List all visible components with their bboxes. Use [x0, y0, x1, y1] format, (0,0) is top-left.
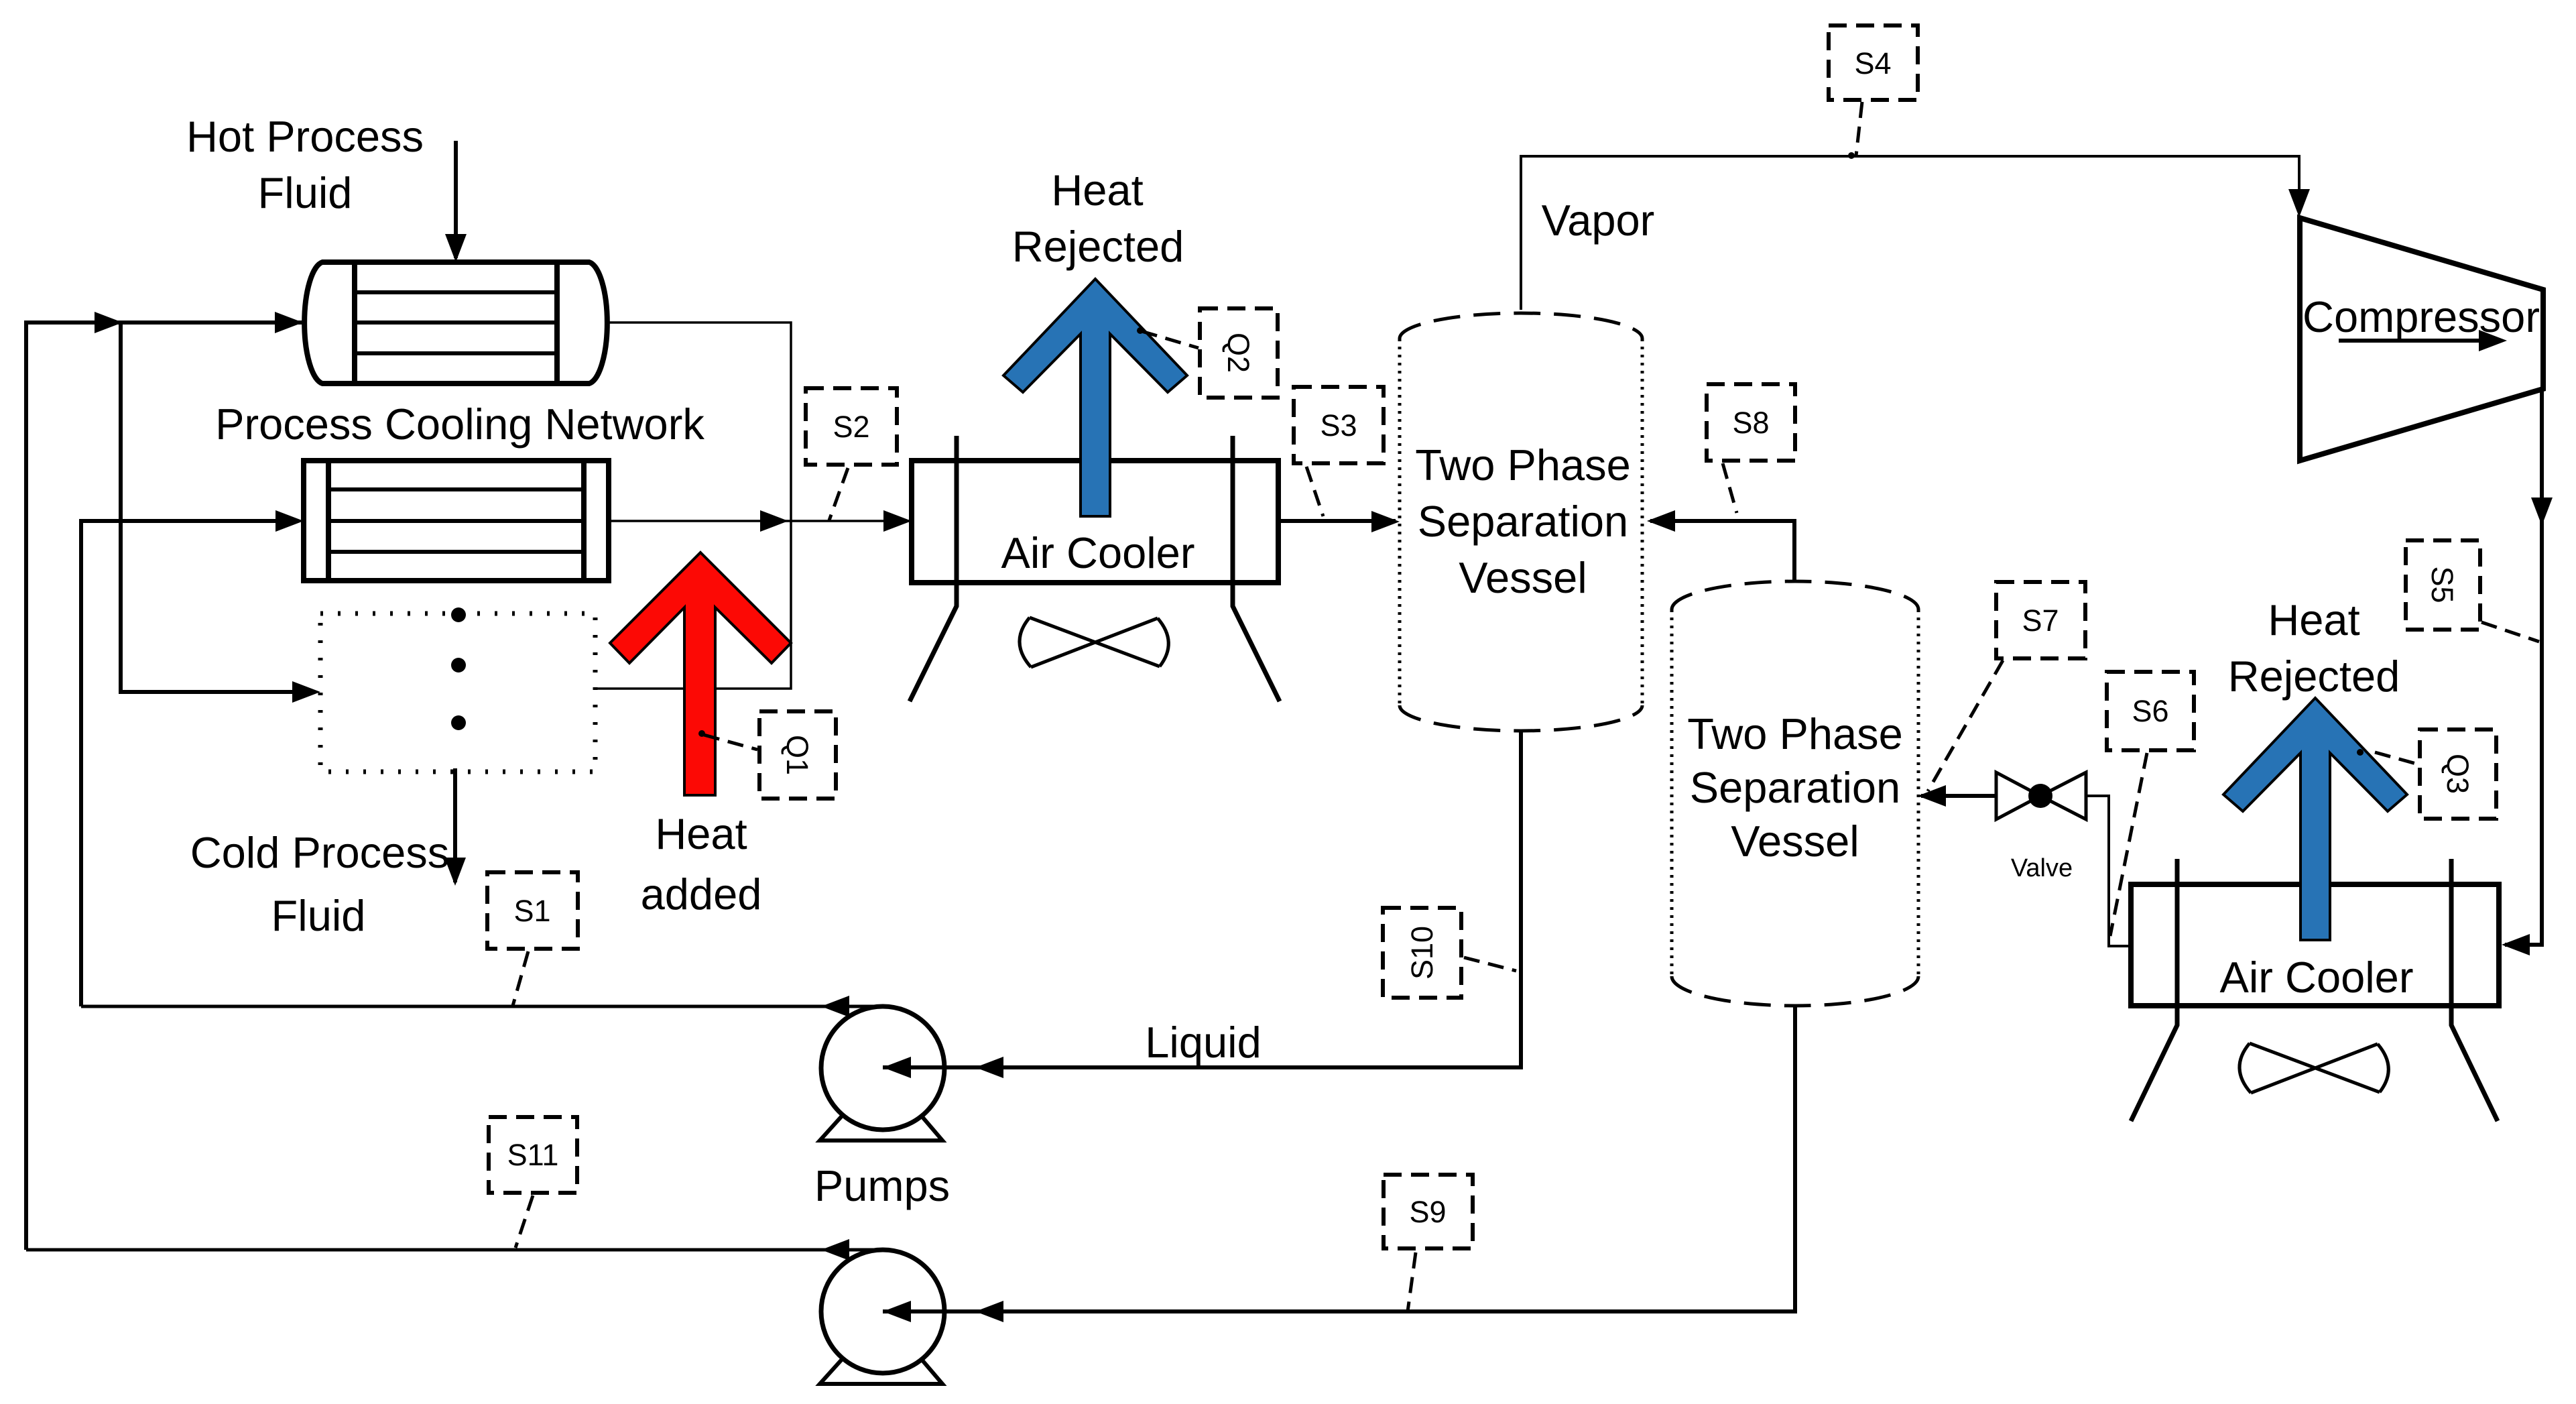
svg-text:Two Phase: Two Phase — [1415, 441, 1631, 489]
svg-text:Vessel: Vessel — [1459, 553, 1587, 602]
svg-text:Vapor: Vapor — [1542, 196, 1655, 245]
svg-text:Air Cooler: Air Cooler — [1001, 528, 1195, 577]
svg-text:added: added — [641, 870, 762, 919]
svg-text:S10: S10 — [1405, 926, 1439, 980]
svg-text:S2: S2 — [833, 410, 869, 444]
svg-text:Fluid: Fluid — [258, 168, 353, 217]
svg-text:Air Cooler: Air Cooler — [2220, 953, 2414, 1002]
svg-text:Valve: Valve — [2011, 854, 2073, 882]
svg-text:Hot Process: Hot Process — [186, 112, 424, 161]
svg-text:S9: S9 — [1409, 1195, 1446, 1229]
svg-text:Heat: Heat — [2268, 595, 2359, 644]
svg-text:Process Cooling Network: Process Cooling Network — [215, 400, 704, 449]
svg-text:Vessel: Vessel — [1731, 817, 1859, 866]
svg-text:Q2: Q2 — [1221, 333, 1255, 373]
svg-text:S6: S6 — [2132, 694, 2168, 728]
svg-text:S5: S5 — [2425, 566, 2459, 603]
svg-text:Q1: Q1 — [780, 735, 814, 775]
svg-text:Fluid: Fluid — [271, 891, 366, 940]
svg-text:Compressor: Compressor — [2303, 292, 2540, 341]
svg-text:Liquid: Liquid — [1145, 1018, 1261, 1067]
svg-text:Q3: Q3 — [2441, 754, 2475, 794]
svg-text:Heat: Heat — [655, 809, 747, 858]
svg-text:S1: S1 — [513, 894, 550, 928]
svg-text:Rejected: Rejected — [1012, 222, 1184, 271]
svg-text:Pumps: Pumps — [814, 1161, 950, 1210]
svg-text:Heat: Heat — [1051, 166, 1143, 215]
svg-text:S8: S8 — [1732, 406, 1769, 440]
svg-text:Cold Process: Cold Process — [190, 828, 450, 877]
svg-text:Separation: Separation — [1690, 763, 1900, 812]
svg-text:Separation: Separation — [1418, 497, 1628, 546]
svg-text:S3: S3 — [1320, 408, 1357, 443]
svg-text:S7: S7 — [2022, 603, 2059, 638]
svg-text:Two Phase: Two Phase — [1687, 709, 1903, 758]
svg-text:Rejected: Rejected — [2228, 652, 2400, 701]
svg-text:S11: S11 — [507, 1138, 559, 1172]
svg-text:S4: S4 — [1854, 46, 1891, 80]
